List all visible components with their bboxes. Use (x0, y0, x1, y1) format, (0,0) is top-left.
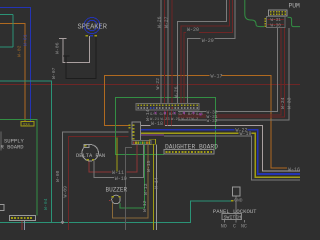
svg-text:W-26: W-26 (156, 16, 162, 28)
svg-text:DELTA FAN: DELTA FAN (76, 153, 105, 159)
svg-text:G/R: G/R (160, 112, 168, 117)
svg-text:R BOARD: R BOARD (1, 144, 25, 151)
svg-text:W-12: W-12 (142, 200, 148, 212)
svg-text:W-19: W-19 (240, 131, 252, 137)
svg-text:W-30: W-30 (271, 24, 282, 29)
svg-text:B/R: B/R (169, 112, 177, 117)
svg-text:PUMP: PUMP (289, 2, 301, 9)
svg-text:PANEL LOCKOUT: PANEL LOCKOUT (213, 208, 257, 215)
svg-text:W-02: W-02 (16, 45, 22, 57)
svg-text:NC: NC (241, 223, 247, 229)
svg-text:W-21: W-21 (150, 118, 160, 122)
svg-text:GND: GND (234, 198, 243, 204)
svg-text:W-06: W-06 (54, 42, 60, 54)
svg-text:W-2: W-2 (192, 118, 200, 122)
svg-text:W-27: W-27 (182, 118, 191, 122)
svg-text:C: C (233, 223, 236, 229)
svg-text:W-33: W-33 (286, 97, 292, 109)
svg-text:W-07: W-07 (51, 67, 57, 79)
svg-text:W-04: W-04 (43, 198, 49, 210)
svg-text:B/Y: B/Y (188, 112, 196, 117)
svg-text:SPEAKER: SPEAKER (78, 23, 108, 31)
svg-text:W-26: W-26 (173, 86, 179, 98)
svg-text:G/Y: G/Y (179, 112, 187, 117)
svg-text:W-22: W-22 (155, 78, 161, 90)
svg-text:W-17: W-17 (211, 74, 223, 80)
svg-text:W-08: W-08 (55, 170, 61, 182)
svg-text:W-13: W-13 (143, 183, 149, 195)
svg-text:BUZZER: BUZZER (106, 187, 128, 194)
svg-text:W-25: W-25 (171, 118, 181, 122)
svg-text:W-29: W-29 (202, 38, 214, 44)
svg-text:W-14: W-14 (154, 177, 160, 189)
svg-text:W-34: W-34 (280, 97, 286, 109)
svg-text:SWITCH: SWITCH (224, 214, 242, 220)
svg-text:W-09: W-09 (62, 186, 68, 198)
svg-text:W-10: W-10 (115, 176, 127, 182)
svg-text:G/B: G/B (150, 112, 158, 117)
svg-text:W-01: W-01 (22, 34, 28, 46)
svg-text:W-20: W-20 (187, 27, 199, 33)
svg-text:W-15: W-15 (146, 160, 152, 172)
svg-text:W-23: W-23 (161, 118, 171, 122)
svg-text:W-31: W-31 (207, 114, 218, 120)
svg-text:XX4: XX4 (23, 123, 31, 127)
svg-text:W-31: W-31 (271, 18, 282, 23)
svg-text:W-27: W-27 (164, 16, 170, 28)
svg-text:NO: NO (221, 223, 227, 229)
svg-text:W-16: W-16 (288, 167, 300, 173)
